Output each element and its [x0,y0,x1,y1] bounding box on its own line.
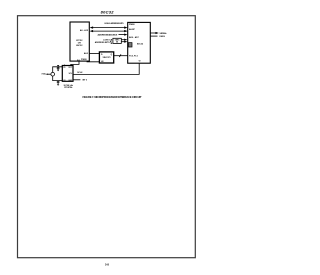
svg-text:80C32: 80C32 [137,43,144,45]
wire U1 PSEN down to U5 [71,61,79,65]
svg-text:ALE: ALE [84,52,89,55]
svg-text:HIGH 8 ADDRESS BITS: HIGH 8 ADDRESS BITS [105,22,125,25]
svg-text:SCLK: SCLK [77,72,83,74]
wire arrow into U4 [119,34,125,36]
wire U2 Q to U4 with bus slash [114,55,128,57]
svg-text:X2: X2 [63,80,65,82]
svg-text:ALE/P: ALE/P [129,28,136,31]
svg-text:SERIAL: SERIAL [160,32,168,35]
svg-text:Q: Q [111,54,113,56]
U5 top stub pin [64,64,66,67]
svg-text:PSEN: PSEN [81,59,87,61]
crystal Y1 [51,72,55,76]
svg-text:ADDRESS BITS: ADDRESS BITS [95,41,111,44]
svg-text:INT 0: INT 0 [82,80,87,82]
address bus wire lower [93,30,125,32]
svg-text:X1: X1 [63,67,65,69]
svg-text:ADDRESS/DATA BUS: ADDRESS/DATA BUS [98,33,118,36]
U4 serial out wire [150,32,156,34]
svg-text:80C32: 80C32 [101,10,115,15]
wire U5 SCL to U4 T2 [73,63,139,74]
svg-text:AD0 - AD7: AD0 - AD7 [129,36,140,39]
wire PSEN to U2 LE [87,60,99,63]
svg-text:FIGURE 7. MICROPROCESSOR INTER: FIGURE 7. MICROPROCESSOR INTERFACE CIRCU… [83,95,143,99]
wire U3 to U4 upper [121,39,124,41]
svg-text:XTAL: XTAL [42,72,47,75]
svg-text:P3.0, P3.1: P3.0, P3.1 [129,55,138,57]
svg-text:SCL: SCL [69,73,72,75]
svg-text:PSEN: PSEN [129,24,135,26]
address bus wire upper [93,27,125,29]
wire ALE to U2 [89,53,99,55]
svg-text:80C32: 80C32 [76,45,83,47]
U4 EA tie box [128,43,132,47]
ground below C2 [57,84,59,86]
wire U5 INT stub [73,79,80,81]
capacitor C2 [57,80,59,83]
svg-text:D: D [101,54,103,56]
svg-text:5-8: 5-8 [105,263,109,267]
logic U3 box [113,38,121,43]
wire Y1 bottom loop [53,76,63,81]
EPROM U1 box [70,22,89,61]
microcontroller U4 box 80C32 [128,22,151,63]
svg-text:VCC: VCC [68,67,72,69]
wire into Y1 [46,73,51,75]
wire U3 to U4 lower [121,41,124,43]
capacitor C1 [57,66,59,69]
RTC U5 box [62,66,73,82]
svg-text:74HC373: 74HC373 [103,56,111,59]
latch U2 box 74HC373 [99,52,113,63]
arrow junction on top wire [57,65,59,67]
U4 serial in wire [150,35,157,37]
svg-text:CRYSTAL: CRYSTAL [64,86,74,89]
page border frame [18,16,196,258]
svg-text:DATA: DATA [160,35,166,38]
svg-text:A8 - A15: A8 - A15 [80,29,89,32]
junction dot [47,74,48,75]
svg-text:T2: T2 [138,61,140,63]
wire Y1 top loop [53,67,63,73]
ground below C1 [57,70,59,72]
